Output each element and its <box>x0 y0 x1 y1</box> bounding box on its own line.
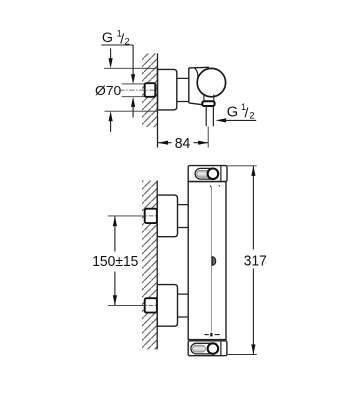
svg-text:317: 317 <box>244 254 267 270</box>
upper escutcheon <box>157 195 177 237</box>
outlet nut <box>202 101 214 106</box>
svg-text:/: / <box>245 106 249 121</box>
wall hatch (bottom drawing) <box>142 181 157 350</box>
bottom handle stadium <box>191 343 217 354</box>
centerline bottom cross <box>204 334 219 336</box>
svg-text:G: G <box>227 104 238 120</box>
neck between escutcheon and body <box>177 78 189 101</box>
lower union square nut <box>145 298 157 312</box>
lower nut centerline dash-dot <box>140 304 157 306</box>
centerline top dots <box>210 185 212 187</box>
leader arrow to outlet pipe <box>226 119 257 121</box>
label G 1/2 (top) <box>102 28 130 46</box>
union square nut (top drawing) <box>145 83 156 97</box>
dimension extension line, escutcheon top (Ø70) <box>104 67 158 69</box>
up arrow to union thread bottom <box>132 107 134 118</box>
top handle stadium <box>195 168 218 179</box>
neck under knob <box>204 95 214 102</box>
Ø70 down arrow <box>110 48 112 59</box>
upper nut centerline dash-dot <box>140 215 157 217</box>
svg-text:84: 84 <box>175 136 191 152</box>
upper union square nut <box>145 209 157 223</box>
84 dimension line <box>158 142 208 144</box>
label G 1/2 (right) <box>227 102 255 121</box>
leader vertical + down arrow to union thread <box>132 45 134 75</box>
leader underline for G 1/2 (top) <box>101 44 133 46</box>
escutcheon (top drawing) <box>158 69 177 110</box>
knob circle <box>197 68 225 96</box>
svg-text:G: G <box>102 30 113 46</box>
lower fitting centerline <box>108 304 145 306</box>
wall face line (bottom drawing) <box>156 181 158 350</box>
317 dimension <box>227 165 257 167</box>
150±15 dimension <box>114 216 116 305</box>
dimension extension line, escutcheon bottom (Ø70) <box>105 110 158 112</box>
mid-bar button <box>212 257 216 266</box>
wall hatch (top drawing) <box>142 53 158 127</box>
nut centerline (dash-dot) <box>119 89 157 91</box>
valve body (cone) <box>189 67 222 105</box>
svg-text:150±15: 150±15 <box>92 254 138 270</box>
top cap <box>188 166 227 182</box>
Ø70 up arrow <box>110 121 112 132</box>
lower escutcheon <box>157 285 177 327</box>
bottom cap <box>188 341 227 356</box>
outlet centerline extension <box>207 127 209 148</box>
svg-text:Ø70: Ø70 <box>95 83 121 98</box>
upper neck <box>178 205 189 228</box>
svg-text:2: 2 <box>249 110 254 121</box>
stub between nut and wall <box>155 86 157 95</box>
upper fitting centerline <box>108 215 145 217</box>
cone transition curve <box>194 68 198 80</box>
union thread extension lines (G 1/2 top) <box>122 84 145 97</box>
wall face line (top drawing) <box>157 53 159 147</box>
outlet pipe <box>206 106 213 126</box>
bar body <box>188 182 226 340</box>
bar centerline <box>210 187 212 332</box>
lower neck <box>178 294 189 317</box>
